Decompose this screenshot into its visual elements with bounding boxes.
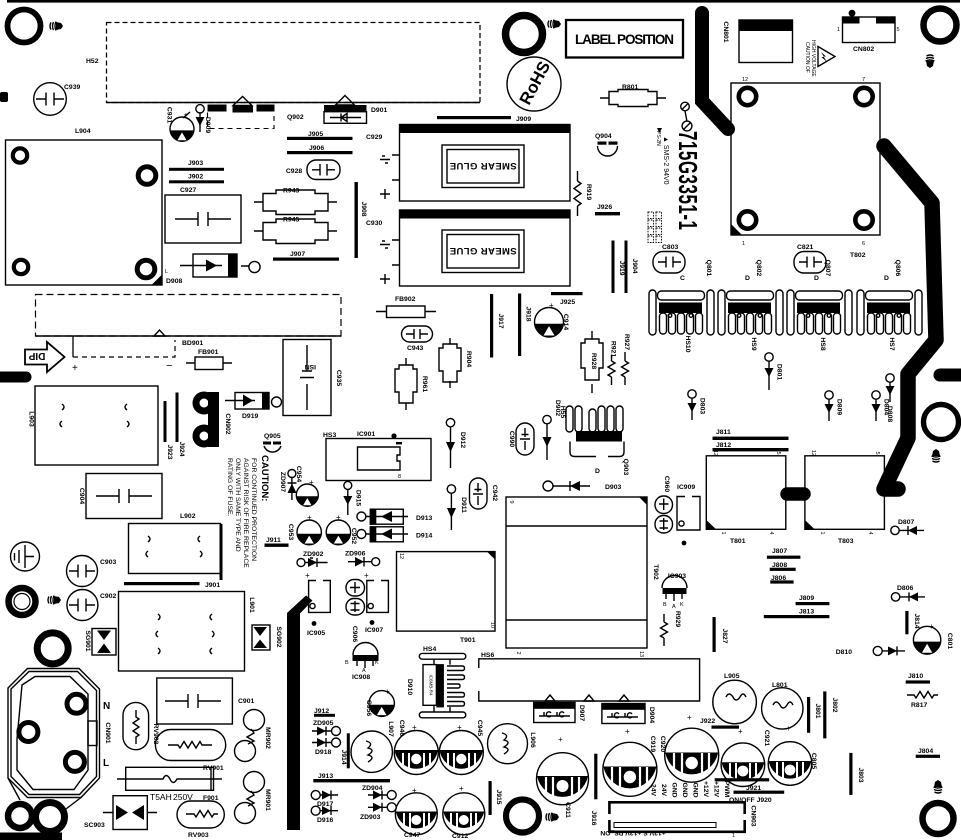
mounting hole top-left bbox=[8, 10, 41, 43]
svg-text:Q806: Q806 bbox=[894, 260, 901, 277]
svg-text:+: + bbox=[72, 363, 78, 374]
svg-text:D919: D919 bbox=[242, 413, 258, 420]
svg-text:J802: J802 bbox=[831, 697, 838, 712]
svg-text:C945: C945 bbox=[476, 720, 483, 736]
svg-text:L907: L907 bbox=[387, 721, 394, 737]
svg-text:IC905: IC905 bbox=[307, 630, 325, 637]
screw top-right bbox=[926, 55, 935, 68]
svg-text:J913: J913 bbox=[318, 773, 333, 780]
svg-text:J804: J804 bbox=[918, 748, 933, 755]
svg-text:J908: J908 bbox=[360, 201, 367, 216]
thick trace right side bbox=[884, 146, 936, 489]
svg-text:J902: J902 bbox=[188, 174, 203, 181]
svg-text:J907: J907 bbox=[290, 251, 305, 258]
svg-text:D: D bbox=[814, 275, 819, 282]
svg-text:1: 1 bbox=[742, 241, 745, 247]
screw top-mid bbox=[548, 20, 561, 29]
heatsink C935 box bbox=[283, 340, 331, 416]
svg-text:8: 8 bbox=[398, 474, 401, 480]
resistor R817 bbox=[907, 692, 938, 699]
jumper J803 bbox=[849, 753, 852, 795]
svg-text:10: 10 bbox=[489, 622, 495, 628]
svg-text:C912: C912 bbox=[452, 833, 468, 840]
svg-text:R929: R929 bbox=[674, 611, 681, 627]
svg-text:J918: J918 bbox=[525, 306, 532, 321]
screw mid-left bbox=[48, 596, 61, 605]
L904 hole top-right bbox=[138, 167, 156, 185]
svg-text:2: 2 bbox=[515, 651, 521, 654]
jumper J801 bbox=[807, 697, 810, 733]
svg-text:J922: J922 bbox=[700, 718, 715, 725]
svg-text:L: L bbox=[165, 269, 168, 275]
zener ZD907 bbox=[288, 470, 296, 478]
svg-text:D809: D809 bbox=[836, 399, 843, 415]
AC inlet CN900 outline bbox=[8, 669, 100, 798]
svg-text:C930: C930 bbox=[366, 220, 382, 227]
svg-text:12: 12 bbox=[398, 553, 404, 559]
jumper J921 bbox=[715, 778, 770, 781]
svg-text:D801: D801 bbox=[776, 364, 783, 380]
svg-text:D909: D909 bbox=[204, 117, 211, 133]
svg-text:J807: J807 bbox=[772, 548, 787, 555]
connector CN903 bbox=[609, 802, 744, 832]
svg-text:4: 4 bbox=[768, 531, 774, 534]
thick trace top-center bbox=[702, 13, 728, 129]
svg-text:13: 13 bbox=[638, 651, 644, 657]
transistor tab Q902b with triangle bbox=[233, 97, 252, 106]
svg-text:C902: C902 bbox=[100, 593, 116, 600]
svg-text:R919: R919 bbox=[585, 184, 592, 200]
high voltage warning triangle bbox=[818, 47, 835, 67]
L904 hole top-left bbox=[13, 148, 27, 162]
svg-text:D: D bbox=[884, 275, 889, 282]
svg-text:L903: L903 bbox=[28, 411, 35, 427]
svg-text:J813: J813 bbox=[799, 609, 814, 616]
svg-text:H52: H52 bbox=[86, 58, 99, 65]
trace stub left edge bbox=[0, 372, 26, 383]
svg-text:J812: J812 bbox=[716, 442, 731, 449]
svg-text:L904: L904 bbox=[75, 128, 91, 135]
transformer T901 bbox=[397, 552, 496, 632]
capacitor C904 bbox=[86, 474, 162, 519]
svg-text:J924: J924 bbox=[178, 441, 185, 456]
diode D917 bbox=[311, 791, 320, 800]
diode D918 bbox=[332, 738, 341, 747]
svg-text:FB901: FB901 bbox=[198, 349, 219, 356]
svg-text:J916: J916 bbox=[590, 810, 597, 825]
svg-text:D810: D810 bbox=[836, 649, 852, 656]
svg-text:J803: J803 bbox=[857, 767, 864, 782]
mounting hole mid-left bbox=[9, 588, 36, 615]
svg-text:715G3351-1: 715G3351-1 bbox=[673, 131, 702, 230]
jumper J924 bbox=[176, 393, 179, 443]
svg-text:D913: D913 bbox=[416, 515, 432, 522]
svg-text:D901: D901 bbox=[371, 107, 387, 114]
svg-text:SG902: SG902 bbox=[275, 626, 282, 647]
svg-text:C: C bbox=[680, 275, 685, 282]
svg-text:7: 7 bbox=[862, 77, 865, 83]
svg-text:HS4: HS4 bbox=[423, 646, 436, 653]
diode D803 bbox=[688, 390, 696, 398]
diode D919 bbox=[235, 393, 269, 410]
thermistor MR902 bbox=[244, 710, 265, 731]
svg-text:L901: L901 bbox=[248, 597, 255, 613]
resistor R961 bbox=[405, 358, 407, 410]
svg-text:PWM: PWM bbox=[723, 781, 730, 798]
diode D901 bbox=[336, 96, 355, 106]
svg-text:L906: L906 bbox=[529, 732, 536, 748]
svg-text:+: + bbox=[625, 727, 630, 736]
svg-text:B: B bbox=[345, 660, 349, 666]
transformer T902 bbox=[506, 497, 647, 648]
svg-text:J926: J926 bbox=[597, 204, 612, 211]
svg-text:C952: C952 bbox=[350, 528, 357, 544]
svg-text:C901: C901 bbox=[238, 698, 254, 705]
svg-text:IC908: IC908 bbox=[352, 674, 370, 681]
jumper J910 bbox=[220, 524, 223, 580]
svg-text:GND: GND bbox=[681, 782, 688, 797]
transistor Q902 dashed outline bbox=[208, 113, 275, 129]
connector CN901 bbox=[88, 721, 97, 746]
svg-text:C919: C919 bbox=[649, 736, 656, 752]
svg-text:Q807: Q807 bbox=[824, 260, 831, 277]
trace stub right edge bbox=[940, 369, 961, 382]
svg-text:C953: C953 bbox=[287, 524, 294, 540]
LABEL POSITION box bbox=[566, 20, 683, 58]
thermistor MR901 bbox=[244, 772, 265, 793]
svg-text:MR901: MR901 bbox=[264, 789, 271, 811]
resistor R904 bbox=[449, 338, 451, 388]
svg-text:+: + bbox=[305, 571, 310, 580]
board top edge bbox=[7, 0, 960, 3]
diode D915 bbox=[344, 481, 352, 489]
connector region dashed outline bbox=[36, 295, 342, 337]
svg-text:RATING OF FUSE.: RATING OF FUSE. bbox=[226, 458, 233, 517]
diode D908 bbox=[193, 254, 237, 277]
svg-text:+: + bbox=[786, 724, 791, 733]
diode D904 bbox=[602, 704, 645, 724]
heatsink HS10 bbox=[649, 290, 714, 335]
mounting hole bottom-center bbox=[506, 800, 539, 833]
svg-text:T901: T901 bbox=[460, 637, 476, 644]
jumper J909 bbox=[437, 116, 511, 119]
svg-text:T902: T902 bbox=[652, 564, 659, 580]
resistor R928 bbox=[591, 331, 593, 393]
connector CN902 bbox=[208, 392, 219, 447]
svg-text:J915: J915 bbox=[495, 789, 502, 804]
svg-text:CN801: CN801 bbox=[722, 21, 729, 42]
RoHS logo bbox=[507, 57, 561, 111]
jumper J802 bbox=[823, 691, 826, 738]
svg-text:CN903: CN903 bbox=[750, 805, 757, 826]
svg-text:R817: R817 bbox=[911, 702, 927, 709]
svg-text:D911: D911 bbox=[460, 497, 467, 513]
jumper J914 bbox=[347, 733, 350, 768]
surge SC903 bbox=[113, 796, 147, 830]
svg-text:D803: D803 bbox=[699, 398, 706, 414]
T802 hole top-left bbox=[739, 88, 756, 105]
svg-text:GND: GND bbox=[671, 782, 678, 797]
svg-text:D915: D915 bbox=[355, 490, 362, 506]
svg-text:ISN: ISN bbox=[305, 363, 316, 370]
svg-text:K: K bbox=[375, 660, 379, 666]
jumper J827 bbox=[713, 617, 716, 652]
svg-text:C927: C927 bbox=[180, 187, 196, 194]
svg-text:D907: D907 bbox=[578, 705, 585, 721]
svg-text:L902: L902 bbox=[180, 513, 196, 520]
svg-text:Q905: Q905 bbox=[264, 433, 281, 440]
diode D809 bbox=[825, 391, 833, 399]
inductor L904 bbox=[6, 140, 163, 285]
svg-text:1: 1 bbox=[720, 531, 726, 534]
svg-text:C801: C801 bbox=[946, 633, 953, 649]
svg-text:A: A bbox=[672, 604, 676, 610]
capacitor C939 bbox=[34, 83, 67, 116]
svg-text:J810: J810 bbox=[908, 673, 923, 680]
svg-text:C931: C931 bbox=[166, 107, 173, 123]
jumper J814 bbox=[905, 611, 908, 634]
T802 hole bottom-right bbox=[855, 211, 872, 228]
svg-text:HS8: HS8 bbox=[819, 337, 826, 350]
svg-text:C903: C903 bbox=[100, 559, 116, 566]
svg-text:+: + bbox=[459, 784, 464, 793]
svg-text:1: 1 bbox=[837, 27, 840, 33]
svg-text:SG901: SG901 bbox=[84, 630, 91, 651]
svg-text:AGAINST RISK OF FIRE REPLACE: AGAINST RISK OF FIRE REPLACE bbox=[242, 458, 249, 568]
svg-text:R945: R945 bbox=[283, 217, 299, 224]
svg-text:K: K bbox=[680, 602, 684, 608]
svg-text:+: + bbox=[558, 735, 563, 744]
T802 corner mark bbox=[731, 224, 742, 235]
heatsink HS7 bbox=[857, 290, 922, 335]
heatsink HS9 bbox=[718, 290, 783, 335]
svg-text:▲ SMS-2 94V0: ▲ SMS-2 94V0 bbox=[662, 136, 669, 185]
svg-text:C942: C942 bbox=[491, 485, 498, 501]
svg-text:D908: D908 bbox=[166, 278, 182, 285]
mounting hole bottom-right bbox=[923, 803, 954, 834]
trace blob between T801 T803 bbox=[787, 487, 804, 501]
svg-text:IC6MB-R4: IC6MB-R4 bbox=[429, 674, 434, 696]
svg-text:J917: J917 bbox=[497, 313, 504, 328]
svg-text:C947: C947 bbox=[404, 832, 420, 839]
svg-text:L905: L905 bbox=[724, 673, 740, 680]
svg-text:T803: T803 bbox=[838, 538, 854, 545]
svg-text:D807: D807 bbox=[898, 519, 914, 526]
connector CN801 bbox=[739, 20, 793, 63]
svg-text:HS9: HS9 bbox=[750, 337, 757, 350]
jumper J916 bbox=[594, 754, 597, 800]
resistor R919 bbox=[574, 171, 581, 216]
svg-text:C911: C911 bbox=[564, 802, 571, 818]
transistor tab Q902c bbox=[257, 105, 275, 112]
screw top-left bbox=[50, 22, 63, 31]
jumper J917 bbox=[490, 294, 493, 358]
svg-text:5: 5 bbox=[897, 27, 900, 33]
inductor L901 bbox=[119, 592, 245, 672]
svg-text:D806: D806 bbox=[897, 585, 913, 592]
svg-text:J903: J903 bbox=[188, 160, 203, 167]
svg-text:J901: J901 bbox=[205, 582, 220, 589]
svg-text:12: 12 bbox=[742, 77, 748, 83]
DIP arrow bbox=[25, 342, 65, 372]
AC inlet pin E bbox=[19, 723, 38, 742]
diode D808 bbox=[886, 374, 894, 382]
svg-text:SC903: SC903 bbox=[84, 822, 105, 829]
connector CN802 bbox=[849, 10, 856, 17]
svg-text:N: N bbox=[103, 701, 110, 712]
svg-text:J814: J814 bbox=[913, 613, 920, 628]
svg-text:R927: R927 bbox=[623, 334, 630, 350]
svg-text:R904: R904 bbox=[465, 351, 472, 367]
svg-text:D904: D904 bbox=[648, 707, 655, 723]
svg-text:4: 4 bbox=[867, 531, 873, 534]
svg-text:12: 12 bbox=[810, 450, 816, 456]
L904 corner mark bbox=[152, 275, 163, 286]
svg-text:R921: R921 bbox=[610, 341, 617, 357]
label SMS-2 94V0 bbox=[657, 128, 662, 133]
svg-text:Q904: Q904 bbox=[595, 133, 612, 140]
svg-text:J909: J909 bbox=[516, 116, 531, 123]
diode D913 bbox=[357, 512, 366, 521]
svg-text:HS7: HS7 bbox=[888, 337, 895, 350]
svg-text:C906: C906 bbox=[351, 626, 358, 642]
svg-text:Q802: Q802 bbox=[755, 260, 762, 277]
board bottom-left edge bar bbox=[0, 833, 62, 840]
screw bottom-center bbox=[546, 813, 559, 822]
jumper J918 bbox=[518, 294, 521, 357]
svg-text:MR902: MR902 bbox=[264, 727, 271, 749]
svg-text:CN802: CN802 bbox=[853, 46, 874, 53]
svg-text:6: 6 bbox=[862, 241, 865, 247]
fuse F901 bbox=[126, 767, 214, 790]
svg-text:D918: D918 bbox=[315, 749, 331, 756]
svg-text:FOR CONTINUED PROTECTION: FOR CONTINUED PROTECTION bbox=[250, 458, 257, 561]
svg-text:FB902: FB902 bbox=[395, 296, 416, 303]
inductor L907 bbox=[351, 731, 392, 772]
diode D902 bbox=[543, 415, 551, 423]
mounting hole top-mid (near RoHS) bbox=[506, 16, 543, 53]
svg-text:IC901: IC901 bbox=[357, 431, 375, 438]
svg-text:5: 5 bbox=[775, 451, 781, 454]
svg-text:HS10: HS10 bbox=[684, 335, 691, 352]
jumper J919 bbox=[612, 241, 615, 294]
svg-text:D916: D916 bbox=[317, 817, 333, 824]
svg-text:C954: C954 bbox=[295, 466, 302, 482]
svg-text:T5AH: T5AH bbox=[150, 792, 172, 802]
C929 polarity marks bbox=[380, 156, 390, 163]
diode D909 bbox=[196, 105, 204, 113]
diode D801 bbox=[765, 353, 773, 361]
thick trace center vertical bbox=[287, 596, 313, 831]
svg-text:D903: D903 bbox=[605, 484, 621, 491]
svg-text:J827: J827 bbox=[721, 628, 728, 643]
diode D916 bbox=[311, 806, 320, 815]
svg-text:ZD905: ZD905 bbox=[313, 720, 334, 727]
svg-text:PS-2N: PS-2N bbox=[655, 131, 661, 146]
svg-text:J925: J925 bbox=[560, 299, 575, 306]
svg-text:HIGH VOLTAGE: HIGH VOLTAGE bbox=[810, 40, 816, 77]
spark gap SG901 bbox=[92, 629, 116, 656]
L904 hole bottom-right bbox=[137, 260, 155, 278]
svg-text:CN901: CN901 bbox=[104, 722, 111, 743]
AC inlet pin N bbox=[67, 694, 86, 713]
svg-text:+12V: +12V bbox=[702, 781, 709, 798]
svg-text:J911: J911 bbox=[266, 537, 281, 544]
svg-text:C990: C990 bbox=[508, 431, 515, 447]
svg-text:C956: C956 bbox=[365, 700, 372, 716]
svg-text:J914: J914 bbox=[340, 749, 347, 764]
diode D911 bbox=[447, 485, 455, 493]
label 715G3351-1 bbox=[681, 102, 690, 111]
svg-text:R961: R961 bbox=[421, 376, 428, 392]
svg-text:12: 12 bbox=[712, 450, 718, 456]
diode D914 bbox=[357, 530, 366, 539]
jumper J923 bbox=[164, 401, 167, 442]
spark gap SG902 bbox=[252, 625, 270, 650]
svg-text:D902: D902 bbox=[554, 400, 561, 416]
varistor RV903 bbox=[177, 801, 224, 828]
svg-text:CN902: CN902 bbox=[224, 413, 231, 434]
svg-text:C943: C943 bbox=[407, 345, 423, 352]
svg-text:J809: J809 bbox=[799, 595, 814, 602]
svg-text:D: D bbox=[745, 275, 750, 282]
inductor L903 bbox=[35, 386, 158, 465]
svg-text:J906: J906 bbox=[309, 145, 324, 152]
capacitor C906 bbox=[346, 580, 365, 597]
diode D903 bbox=[543, 481, 553, 491]
transistor tab Q902a bbox=[208, 105, 227, 112]
AC inlet mounting ring top bbox=[37, 633, 68, 664]
svg-text:C914: C914 bbox=[562, 314, 569, 330]
svg-text:5: 5 bbox=[874, 451, 880, 454]
svg-text:+12V S +12V PS_ON: +12V S +12V PS_ON bbox=[600, 829, 665, 836]
svg-text:J923: J923 bbox=[166, 444, 173, 459]
svg-text:Q801: Q801 bbox=[705, 260, 712, 277]
svg-text:C960: C960 bbox=[663, 476, 670, 492]
svg-text:SMEAR GLUE: SMEAR GLUE bbox=[449, 160, 516, 171]
svg-text:LABEL POSITION: LABEL POSITION bbox=[575, 32, 674, 47]
svg-text:C803: C803 bbox=[662, 244, 678, 251]
capacitor C943 bbox=[402, 326, 433, 342]
zener ZD903 bbox=[387, 803, 396, 812]
svg-text:L: L bbox=[103, 758, 109, 769]
C930 polarity marks bbox=[380, 241, 390, 248]
svg-text:IC909: IC909 bbox=[677, 484, 695, 491]
svg-text:ONLY WITH SAME TYPE AND: ONLY WITH SAME TYPE AND bbox=[234, 458, 241, 552]
svg-text:D914: D914 bbox=[416, 533, 432, 540]
svg-text:C935: C935 bbox=[335, 370, 342, 386]
mounting hole mid-right bbox=[924, 405, 959, 440]
svg-text:D808: D808 bbox=[886, 406, 893, 422]
varistor RV902 bbox=[123, 702, 149, 749]
ground symbol bbox=[11, 542, 40, 571]
diode D912 bbox=[446, 419, 454, 427]
svg-text:9: 9 bbox=[508, 500, 514, 503]
jumper J925 bbox=[551, 292, 583, 295]
T802 hole top-right bbox=[855, 88, 872, 105]
svg-text:GND: GND bbox=[692, 782, 699, 797]
T802 hole bottom-left bbox=[739, 211, 756, 228]
svg-text:B: B bbox=[663, 602, 667, 608]
svg-text:24V: 24V bbox=[650, 784, 657, 797]
inductor L906 bbox=[488, 724, 528, 764]
jumper J915 bbox=[489, 781, 492, 815]
AC inlet lug ring bottom-left bbox=[8, 804, 32, 828]
screw mid-right bbox=[932, 449, 941, 462]
capacitor C942 bbox=[470, 478, 488, 509]
L904 hole bottom-left bbox=[14, 260, 28, 274]
svg-text:D912: D912 bbox=[459, 432, 466, 448]
